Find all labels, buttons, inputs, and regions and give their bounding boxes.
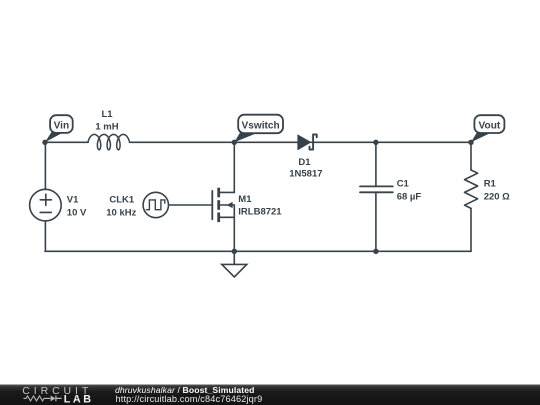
node Vout flag pointer [471, 132, 492, 142]
ground [222, 251, 247, 277]
svg-text:68 µF: 68 µF [397, 192, 422, 203]
resistor R1 [470, 142, 472, 170]
node Vout dot [468, 140, 473, 145]
svg-text:Vswitch: Vswitch [242, 121, 280, 132]
node Vswitch dot [232, 140, 237, 145]
node ground junction dot [232, 249, 237, 254]
transistor M1 channel bars [217, 188, 220, 222]
svg-text:http://circuitlab.com/c84c7646: http://circuitlab.com/c84c76462jqr9 [116, 394, 263, 404]
node Vin flag [50, 115, 73, 133]
wire left rail upper [44, 142, 46, 189]
transistor M1 gate line [211, 191, 213, 219]
svg-text:R1: R1 [484, 179, 497, 190]
diode D1 schottky bar [310, 134, 317, 149]
node Vin flag pointer [45, 132, 64, 142]
svg-text:D1: D1 [298, 157, 311, 168]
node Vswitch flag pointer [234, 133, 258, 143]
svg-text:Vin: Vin [54, 121, 70, 132]
clock source CLK1 [143, 192, 168, 217]
wire bottom rail [45, 250, 471, 252]
transistor M1 source wire [220, 217, 234, 251]
footer bar [0, 385, 540, 405]
svg-text:1 mH: 1 mH [95, 121, 118, 132]
wire top rail right [311, 141, 471, 143]
transistor M1 body arrow [227, 202, 233, 208]
diode D1 triangle [297, 134, 311, 150]
svg-text:V1: V1 [67, 194, 79, 205]
node C1 top dot [373, 140, 378, 145]
inductor L1 [88, 134, 129, 149]
voltage source V1 [30, 189, 62, 221]
capacitor C1 [375, 142, 377, 186]
svg-text:IRLB8721: IRLB8721 [238, 206, 282, 217]
svg-text:10 V: 10 V [67, 207, 87, 218]
wire left rail lower [44, 221, 46, 251]
node Vin dot [42, 140, 47, 145]
svg-text:C1: C1 [397, 179, 410, 190]
node Vswitch flag [238, 115, 283, 134]
svg-text:Vout: Vout [479, 121, 501, 132]
svg-text:220 Ω: 220 Ω [484, 192, 510, 203]
wire top rail middle [130, 141, 299, 143]
svg-text:CLK1: CLK1 [109, 194, 135, 205]
wire top rail left [45, 141, 88, 143]
transistor M1 drain wire [220, 142, 234, 192]
transistor M1 body wire [220, 205, 234, 217]
node Vout flag [474, 115, 504, 133]
logo squiggle resistor [24, 396, 51, 401]
svg-text:1N5817: 1N5817 [289, 169, 322, 180]
svg-text:LAB: LAB [64, 394, 94, 405]
svg-text:L1: L1 [101, 109, 113, 120]
svg-text:10 kHz: 10 kHz [106, 207, 136, 218]
logo diode glyph [51, 396, 56, 402]
svg-text:M1: M1 [238, 194, 252, 205]
wire gate [169, 204, 212, 206]
node C1 bottom dot [373, 249, 378, 254]
